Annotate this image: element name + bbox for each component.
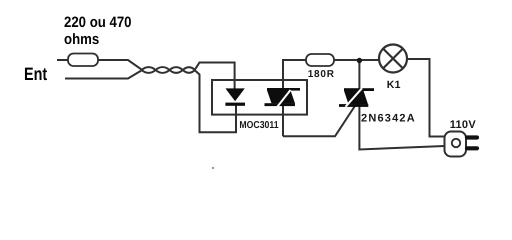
svg-text:110V: 110V [450,119,477,131]
svg-text:180R: 180R [308,69,335,80]
svg-text:MOC3011: MOC3011 [239,120,279,131]
svg-text:2N6342A: 2N6342A [361,112,416,124]
svg-text:K1: K1 [387,79,401,91]
